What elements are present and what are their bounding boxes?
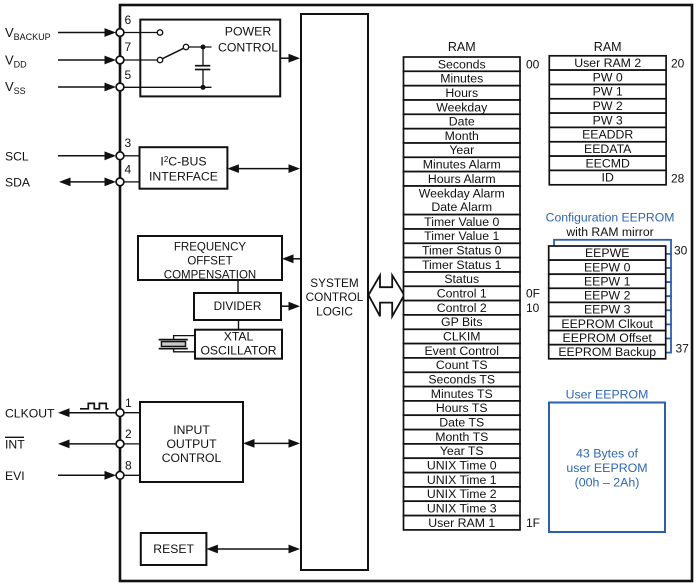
pin 2 circle [116,440,124,448]
EEPROM mirror shadow page for EEPW 3 [554,296,671,310]
svg-text:Weekday: Weekday [436,100,488,114]
svg-text:EEPW 2: EEPW 2 [584,289,631,303]
svg-text:EECMD: EECMD [585,156,630,170]
register ID [549,170,666,184]
EEPROM mirror shadow page for EEPW 1 [554,268,671,282]
svg-text:6: 6 [125,13,132,27]
register Seconds TS [404,372,521,386]
svg-text:with RAM mirror: with RAM mirror [565,225,653,239]
wire+arrow EVI input [58,471,116,480]
EEPROM mirror shadow page for EEPW 2 [554,282,671,296]
register Control 1 [404,286,521,300]
block DIVIDER [194,293,281,320]
svg-text:UNIX Time 0: UNIX Time 0 [427,459,497,473]
register User RAM 2 [549,56,666,70]
svg-text:PW 2: PW 2 [593,99,623,113]
register User RAM 1 [404,516,521,530]
block RESET [141,533,207,565]
wire+arrow I2C to SYSTEM CONTROL LOGIC bidirectional [227,164,300,173]
wire+arrow INT output [58,440,116,449]
svg-text:CONTROL: CONTROL [306,290,364,304]
svg-text:28: 28 [671,172,685,186]
EEPROM register EEPROM Backup [549,345,666,359]
svg-text:Timer Status 0: Timer Status 0 [422,244,502,258]
register UNIX Time 0 [404,458,521,472]
pin 3 circle [116,152,124,160]
register UNIX Time 2 [404,487,521,501]
junction node on VSS rail [201,85,206,90]
svg-text:Seconds: Seconds [438,57,486,71]
svg-text:Status: Status [444,272,479,286]
block I2C-BUS INTERFACE [140,147,228,189]
svg-text:Hours: Hours [445,86,478,100]
pin 7 circle [116,56,124,64]
svg-text:Minutes: Minutes [440,72,483,86]
svg-text:1F: 1F [526,516,540,530]
register Timer Value 0 [404,215,521,229]
register PW 1 [549,85,666,99]
svg-text:Configuration EEPROM: Configuration EEPROM [546,211,675,225]
svg-text:SS: SS [14,86,26,96]
svg-text:INPUT: INPUT [173,423,210,437]
capacitor C (backup) [195,47,210,87]
block POWER CONTROL [140,20,280,97]
register Timer Value 1 [404,229,521,243]
svg-text:7: 7 [125,40,132,54]
svg-text:EEPROM Clkout: EEPROM Clkout [561,317,653,331]
switch common pole (open circle) [183,44,188,49]
svg-text:CLKIM: CLKIM [443,330,481,344]
svg-text:37: 37 [676,342,690,356]
register UNIX Time 1 [404,473,521,487]
svg-text:Timer Status 1: Timer Status 1 [422,258,502,272]
svg-text:5: 5 [125,68,132,82]
svg-text:30: 30 [674,243,688,257]
wire+arrow RESET to SYSTEM CONTROL LOGIC bidirectional [206,545,300,554]
svg-text:UNIX Time 3: UNIX Time 3 [427,502,497,516]
svg-text:10: 10 [526,301,540,315]
register Status [404,272,521,286]
register PW 0 [549,70,666,84]
register Year [404,143,521,157]
svg-text:GP Bits: GP Bits [441,315,482,329]
block U-SCL SYSTEM CONTROL LOGIC [301,14,368,570]
EEPROM mirror shadow page for EEPROM Backup [554,339,671,353]
svg-text:Date: Date [449,115,475,129]
register Date TS [404,415,521,429]
wire pin4 to I2C block [124,181,140,183]
svg-text:DIVIDER: DIVIDER [214,299,262,313]
pin 4 circle [116,178,124,186]
wire+arrow VBACKUP input [58,28,116,37]
pin 5 circle [116,83,124,91]
register Timer Status 0 [404,243,521,257]
wire FREQ OFFSET COMP to DIVIDER [237,280,239,293]
register Timer Status 1 [404,258,521,272]
register PW 3 [549,113,666,127]
svg-text:RAM: RAM [448,40,476,54]
label VBACKUP [5,25,51,42]
svg-text:PW 1: PW 1 [593,85,623,99]
register Count TS [404,358,521,372]
svg-text:EEPW 3: EEPW 3 [584,303,631,317]
svg-text:43 Bytes of: 43 Bytes of [576,446,639,460]
wire+arrow VSS input [58,83,116,92]
wire pin1 to IOC block [124,412,141,414]
svg-text:(00h – 2Ah): (00h – 2Ah) [575,475,640,489]
block XTAL OSCILLATOR [195,330,282,359]
svg-text:Timer Value 0: Timer Value 0 [424,215,499,229]
svg-text:Minutes TS: Minutes TS [431,387,493,401]
wire common pole to node [189,46,212,48]
svg-text:COMPENSATION: COMPENSATION [164,269,256,281]
svg-text:CONTROL: CONTROL [218,41,278,55]
svg-text:20: 20 [671,56,685,70]
svg-text:EEPW 0: EEPW 0 [584,260,631,274]
register EEDATA [549,142,666,156]
wire pin3 to I2C block [124,155,140,157]
wire VSS rail pin5 [124,86,212,88]
svg-text:Month: Month [445,129,479,143]
svg-text:OUTPUT: OUTPUT [166,437,217,451]
svg-text:Date TS: Date TS [439,416,484,430]
svg-text:00: 00 [526,57,540,71]
svg-text:RESET: RESET [153,542,194,556]
svg-text:POWER: POWER [225,25,272,39]
label INT (active low) [5,437,25,451]
svg-text:OSCILLATOR: OSCILLATOR [200,344,276,358]
svg-text:Control 2: Control 2 [437,301,487,315]
junction node top of capacitor [201,45,206,50]
register Minutes TS [404,387,521,401]
register EECMD [549,156,666,170]
svg-text:INT: INT [5,438,25,452]
svg-text:CLKOUT: CLKOUT [5,406,55,420]
EEPROM register EEPWE [549,246,666,260]
block User EEPROM [549,403,665,533]
svg-text:ID: ID [602,171,614,185]
wire pin8 to IOC block [124,474,141,476]
svg-text:2: 2 [125,427,132,441]
wire+arrow CLKOUT output [58,408,116,417]
register Minutes Alarm [404,157,521,171]
svg-text:PW 0: PW 0 [593,70,623,84]
wire+arrow SCL input [58,151,116,160]
svg-text:INTERFACE: INTERFACE [149,170,218,184]
svg-text:Month TS: Month TS [435,430,488,444]
EEPROM register EEPW 2 [549,288,666,302]
svg-text:Year TS: Year TS [440,444,484,458]
register GP Bits [404,315,521,329]
register Month [404,129,521,143]
register Month TS [404,430,521,444]
switch contact VDD (open circle) [157,57,162,62]
svg-text:OFFSET: OFFSET [187,255,232,267]
svg-text:4: 4 [125,163,132,177]
svg-text:SCL: SCL [5,150,29,164]
svg-text:EEADDR: EEADDR [582,128,633,142]
svg-text:User EEPROM: User EEPROM [566,387,649,401]
register Seconds [404,57,521,71]
block INPUT OUTPUT CONTROL [140,402,243,482]
EEPROM register EEPROM Clkout [549,317,666,331]
svg-text:Year: Year [449,143,474,157]
register Weekday Alarm/Date Alarm [404,186,521,215]
EEPROM register EEPW 1 [549,274,666,288]
svg-text:Control 1: Control 1 [437,287,487,301]
wire pin2 to IOC block [124,443,141,445]
svg-text:Count TS: Count TS [436,358,488,372]
svg-text:Hours Alarm: Hours Alarm [428,172,496,186]
pin 8 circle [116,471,124,479]
svg-text:PW 3: PW 3 [593,113,623,127]
wire+arrow DIVIDER to SYSTEM CONTROL LOGIC [281,302,300,311]
wire+arrow IOC to SYSTEM CONTROL LOGIC bidirectional [243,439,300,448]
bus arrow SYSTEM CONTROL LOGIC <-> registers (hollow double arrow) [369,275,405,316]
svg-text:EEDATA: EEDATA [584,142,632,156]
svg-text:Minutes Alarm: Minutes Alarm [423,158,501,172]
register UNIX Time 3 [404,501,521,515]
svg-text:Weekday Alarm: Weekday Alarm [419,187,505,201]
svg-text:EEPW 1: EEPW 1 [584,274,631,288]
svg-text:I2C-BUS: I2C-BUS [160,155,206,169]
svg-text:Hours TS: Hours TS [436,401,488,415]
svg-text:BACKUP: BACKUP [14,32,51,42]
svg-text:EEPROM Offset: EEPROM Offset [563,331,653,345]
svg-text:CONTROL: CONTROL [162,451,222,465]
svg-text:Date Alarm: Date Alarm [431,200,492,214]
register Weekday [404,100,521,114]
svg-text:RAM: RAM [594,40,622,54]
EEPROM mirror shadow page for EEPWE [554,240,671,254]
register Date [404,114,521,128]
svg-text:EEPWE: EEPWE [585,246,629,260]
register Control 2 [404,301,521,315]
svg-text:FREQUENCY: FREQUENCY [174,241,247,253]
svg-text:SDA: SDA [5,176,31,190]
svg-text:Timer Value 1: Timer Value 1 [424,229,499,243]
svg-text:User RAM 1: User RAM 1 [428,516,495,530]
wire DIVIDER to XTAL OSCILLATOR [238,320,240,330]
svg-text:DD: DD [14,60,27,70]
register Hours TS [404,401,521,415]
wire+arrow POWER CONTROL to SYSTEM CONTROL LOGIC [280,54,300,63]
svg-text:8: 8 [125,459,132,473]
svg-text:user EEPROM: user EEPROM [566,461,647,475]
register EEADDR [549,127,666,141]
register Hours [404,86,521,100]
pin 6 circle [116,29,124,37]
wire pin6 to switch contact [124,32,158,34]
clock waveform symbol [80,403,109,408]
crystal X1 symbol [159,336,195,352]
svg-text:0F: 0F [526,287,540,301]
EEPROM mirror shadow page for EEPROM Offset [554,324,671,338]
EEPROM mirror shadow page for EEPROM Clkout [554,310,671,324]
label VDD [5,53,27,70]
svg-text:UNIX Time 1: UNIX Time 1 [427,473,497,487]
register Minutes [404,71,521,85]
svg-text:LOGIC: LOGIC [316,305,353,319]
register Event Control [404,344,521,358]
register PW 2 [549,99,666,113]
wire pin7 to switch contact [124,59,158,61]
switch contact VBACKUP (open circle) [157,30,162,35]
svg-text:UNIX Time 2: UNIX Time 2 [427,487,497,501]
EEPROM register EEPW 0 [549,260,666,274]
svg-text:SYSTEM: SYSTEM [310,276,359,290]
svg-text:1: 1 [125,396,132,410]
svg-text:XTAL: XTAL [224,330,254,344]
svg-text:Event Control: Event Control [424,344,499,358]
wire+arrow SYSTEM CONTROL LOGIC to FREQ OFFSET COMP [282,254,301,263]
EEPROM register EEPW 3 [549,302,666,316]
svg-text:EEPROM Backup: EEPROM Backup [558,345,656,359]
register CLKIM [404,329,521,343]
register Year TS [404,444,521,458]
svg-text:EVI: EVI [5,469,25,483]
wire+arrow SDA bidirectional [59,178,116,187]
svg-text:User RAM 2: User RAM 2 [574,56,641,70]
register Hours Alarm [404,172,521,186]
pin 1 circle [116,409,124,417]
EEPROM register EEPROM Offset [549,331,666,345]
svg-text:Seconds TS: Seconds TS [428,373,495,387]
switch blade [162,48,183,58]
EEPROM mirror shadow page for EEPW 0 [554,254,671,268]
svg-text:3: 3 [125,136,132,150]
label VSS [5,79,26,96]
block FREQUENCY OFFSET COMPENSATION [138,236,282,281]
wire+arrow VDD input [58,56,116,65]
